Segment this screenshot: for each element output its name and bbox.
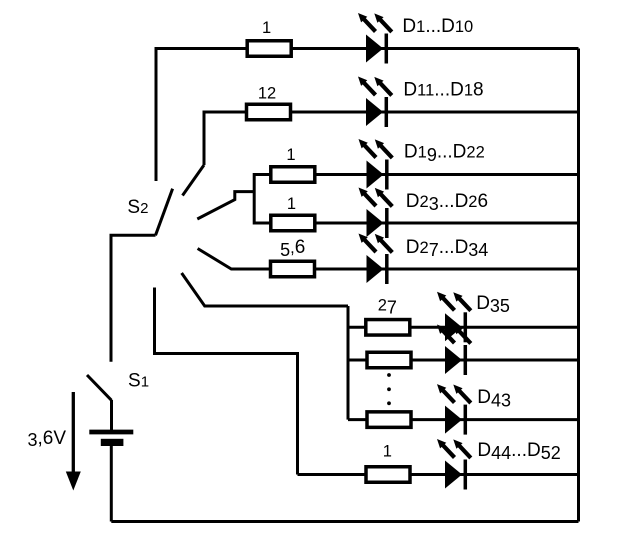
svg-text:D19...D22: D19...D22	[404, 142, 485, 165]
resistor 1 branch4	[271, 215, 315, 231]
wire parallel bracket	[253, 173, 256, 225]
wire branch2	[204, 112, 579, 165]
svg-text:D43: D43	[477, 387, 511, 410]
LED D23...D26	[359, 188, 393, 239]
svg-text:S1: S1	[128, 370, 149, 391]
wire battery to bottom	[110, 445, 113, 522]
wire S2 throw6 path	[155, 288, 298, 475]
ellipsis dots	[387, 373, 391, 405]
svg-text:D1...D10: D1...D10	[402, 16, 473, 37]
resistor row2	[367, 352, 411, 368]
resistor row D43	[367, 412, 411, 428]
LED D43	[437, 384, 471, 435]
LED D44...D52	[437, 439, 471, 490]
svg-text:1: 1	[262, 19, 271, 37]
wire S1 to battery	[110, 400, 113, 432]
switch S2 arm	[156, 189, 173, 236]
wire S2 throw5 spoke	[182, 273, 348, 306]
LED D27...D34	[359, 234, 393, 285]
svg-text:D44...D52: D44...D52	[477, 440, 560, 463]
wire branch5 with throw4 spoke	[198, 249, 579, 270]
wire branch1 top	[156, 49, 579, 182]
wire 27-group bus	[347, 306, 350, 420]
svg-text:5,6: 5,6	[280, 237, 305, 260]
LED D19...D22	[359, 139, 393, 190]
wire row D35	[348, 326, 579, 329]
svg-text:D11...D18: D11...D18	[403, 80, 483, 101]
wire branch4	[254, 222, 578, 225]
wire branch3	[254, 173, 578, 176]
wire S2 throw3 spoke	[197, 192, 254, 219]
resistor 12 branch2	[247, 104, 291, 120]
wire bottom return	[111, 520, 578, 523]
svg-text:3,6V: 3,6V	[28, 428, 67, 450]
svg-text:1: 1	[383, 443, 392, 461]
LED D35	[437, 292, 471, 343]
resistor 1 branch3	[271, 167, 315, 183]
resistor 1 branch1	[247, 41, 291, 57]
svg-text:1: 1	[286, 146, 295, 164]
wire S2 throw2 spoke	[183, 165, 205, 196]
resistor 1 branch D44	[366, 467, 410, 483]
battery BT1 short plate	[101, 439, 124, 446]
LED D11...D18	[358, 77, 392, 128]
wire S2 pole lead	[111, 235, 156, 361]
LED D1...D10	[358, 13, 392, 64]
svg-text:D23...D26: D23...D26	[406, 191, 488, 214]
LED row middle	[437, 325, 471, 376]
resistor 5,6 branch5	[271, 261, 315, 277]
wire row D43	[348, 418, 579, 421]
wire right rail	[577, 49, 580, 522]
battery BT1 long plate	[89, 430, 133, 435]
svg-text:1: 1	[287, 195, 296, 213]
wire branch D44	[298, 473, 579, 476]
current direction arrow	[72, 392, 75, 476]
svg-text:D35: D35	[476, 293, 510, 316]
wire row middle	[348, 359, 579, 362]
svg-text:S2: S2	[127, 197, 148, 218]
svg-text:12: 12	[258, 85, 276, 103]
svg-text:D27...D34: D27...D34	[406, 237, 489, 260]
resistor 27 row1	[366, 320, 410, 336]
svg-text:27: 27	[378, 296, 397, 317]
switch S1 arm	[87, 375, 112, 400]
